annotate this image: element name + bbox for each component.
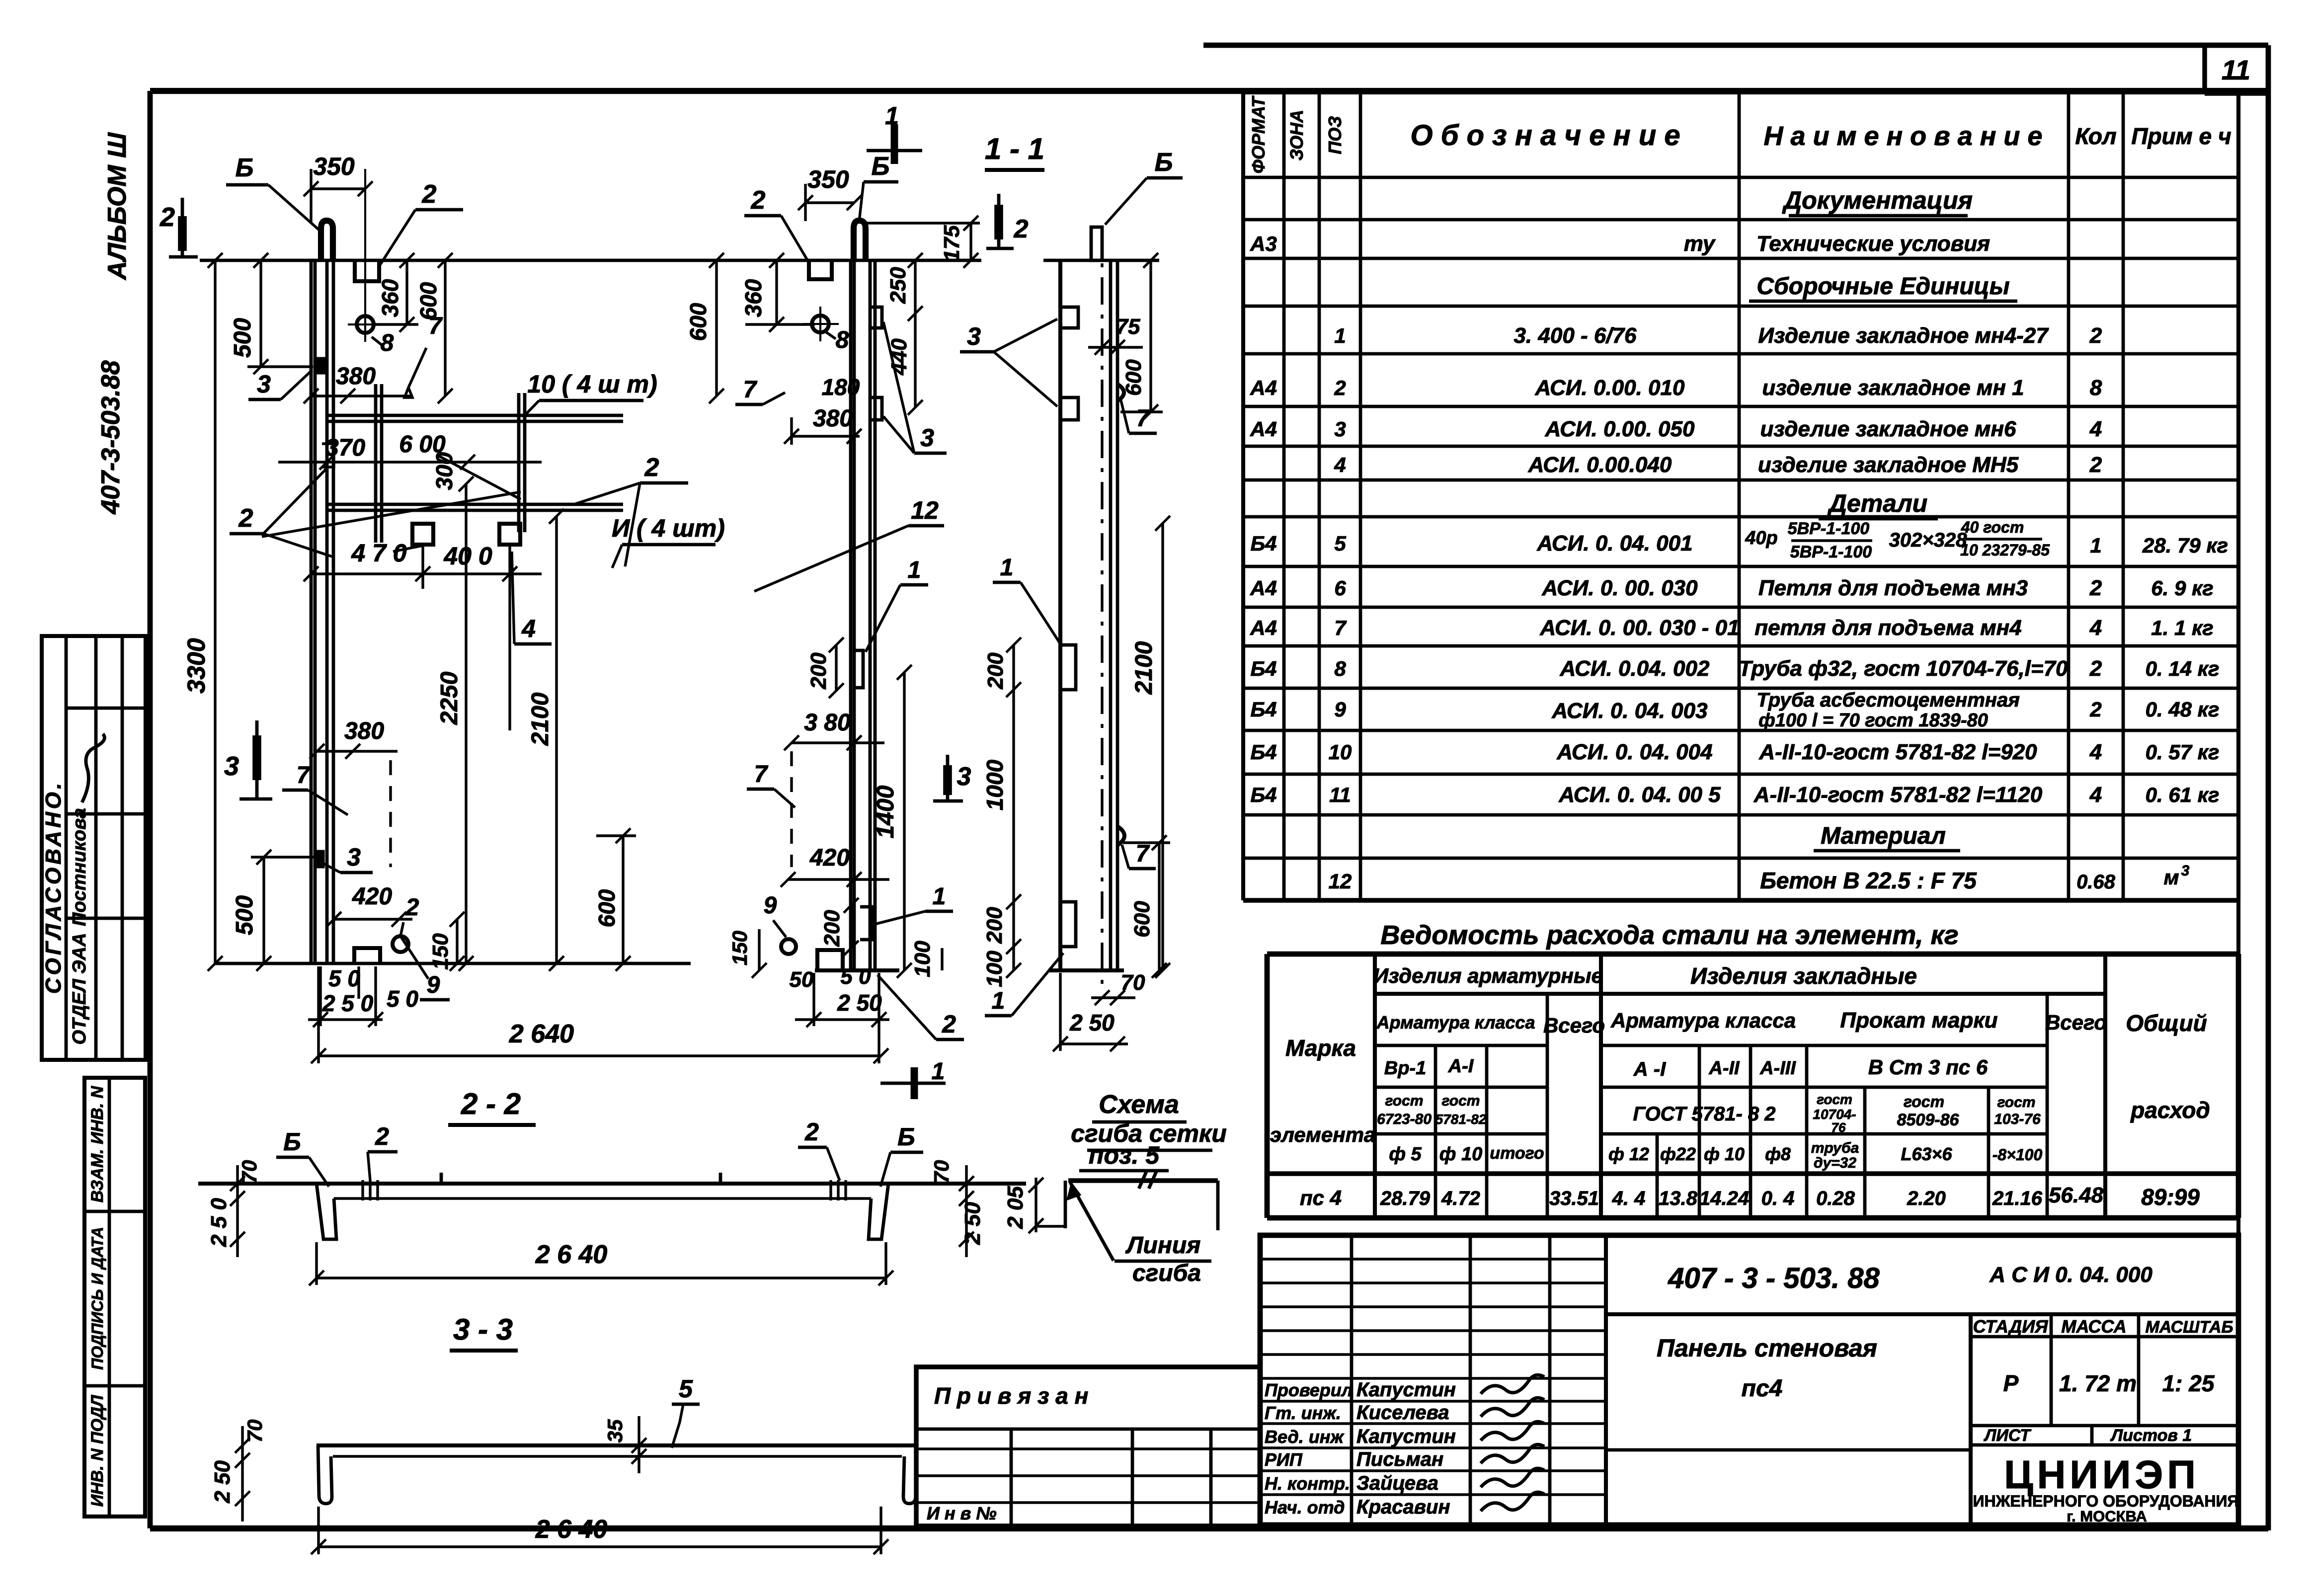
svg-text:380: 380 (344, 718, 384, 744)
svg-text:6: 6 (1334, 576, 1346, 600)
svg-text:56.48: 56.48 (2049, 1183, 2104, 1207)
svg-text:3. 400 - 6/76: 3. 400 - 6/76 (1514, 323, 1637, 348)
svg-text:2 50: 2 50 (837, 990, 882, 1016)
svg-text:Изделия арматурные: Изделия арматурные (1373, 964, 1603, 987)
svg-text:2: 2 (942, 1010, 956, 1038)
svg-text:7: 7 (743, 377, 758, 403)
svg-text:А-II-10-гост 5781-82 l=920: А-II-10-гост 5781-82 l=920 (1758, 740, 2037, 764)
svg-text:А3: А3 (1250, 232, 1277, 255)
svg-text:А-I: А-I (1448, 1056, 1474, 1077)
svg-text:АСИ. 0. 00. 030: АСИ. 0. 00. 030 (1541, 576, 1698, 600)
svg-text:6723-80: 6723-80 (1377, 1111, 1432, 1127)
svg-text:АСИ. 0. 00. 030 - 01: АСИ. 0. 00. 030 - 01 (1539, 616, 1739, 640)
svg-text:ГОСТ 5781- 8 2: ГОСТ 5781- 8 2 (1633, 1103, 1775, 1125)
svg-text:Арматура класса: Арматура класса (1376, 1012, 1535, 1033)
svg-text:петля для подъема мн4: петля для подъема мн4 (1754, 616, 2021, 640)
svg-text:ф8: ф8 (1765, 1144, 1791, 1164)
svg-text:2100: 2100 (527, 692, 554, 746)
svg-text:Технические условия: Технические условия (1756, 232, 1990, 256)
svg-text:Б: Б (283, 1128, 301, 1156)
svg-text:Всего: Всего (1543, 1014, 1605, 1037)
svg-text:50: 50 (790, 967, 814, 992)
svg-text:600: 600 (685, 303, 711, 341)
svg-text:АСИ. 0.00. 050: АСИ. 0.00. 050 (1545, 417, 1695, 441)
svg-text:200: 200 (806, 652, 831, 690)
svg-text:Б4: Б4 (1250, 657, 1276, 680)
svg-text:2 50: 2 50 (960, 1202, 985, 1245)
svg-text:2: 2 (2089, 576, 2102, 600)
svg-text:2: 2 (644, 453, 659, 482)
svg-text:Капустин: Капустин (1356, 1426, 1456, 1447)
svg-text:2.20: 2.20 (1907, 1188, 1946, 1209)
svg-text:1. 1 кг: 1. 1 кг (2151, 616, 2213, 639)
svg-text:3: 3 (920, 424, 934, 452)
svg-text:А-II: А-II (1708, 1058, 1740, 1079)
svg-text:4.72: 4.72 (1441, 1188, 1480, 1209)
svg-text:гост: гост (1442, 1093, 1480, 1109)
svg-text:А4: А4 (1250, 616, 1277, 639)
svg-text:Ведомость расхода стали: Ведомость расхода стали на элемент, кг (1380, 920, 1958, 950)
svg-text:11: 11 (1329, 783, 1351, 806)
svg-text:Б: Б (897, 1123, 915, 1151)
svg-text:Всего: Всего (2045, 1011, 2107, 1034)
svg-text:3 - 3: 3 - 3 (453, 1313, 513, 1346)
svg-text:9: 9 (1334, 698, 1346, 721)
svg-text:420: 420 (352, 883, 392, 910)
svg-text:А-III: А-III (1759, 1058, 1796, 1079)
svg-text:2 50: 2 50 (210, 1460, 235, 1504)
svg-text:2: 2 (375, 1122, 389, 1150)
svg-text:Красавин: Красавин (1356, 1496, 1450, 1518)
svg-text:-8×100: -8×100 (1993, 1146, 2043, 1164)
svg-text:L63×6: L63×6 (1901, 1144, 1952, 1164)
svg-text:АСИ. 0. 04. 003: АСИ. 0. 04. 003 (1551, 699, 1707, 723)
svg-text:8: 8 (836, 327, 849, 353)
svg-text:7: 7 (754, 761, 769, 788)
svg-text:А4: А4 (1250, 417, 1277, 441)
svg-text:Кол: Кол (2075, 123, 2116, 149)
svg-text:А-II-10-гост 5781-82 l=1120: А-II-10-гост 5781-82 l=1120 (1754, 783, 2043, 807)
svg-text:150: 150 (728, 931, 751, 965)
svg-text:5: 5 (679, 1375, 693, 1403)
svg-text:Бетон В 22.5 : F 75: Бетон В 22.5 : F 75 (1760, 868, 1977, 893)
svg-text:10 ( 4 ш т): 10 ( 4 ш т) (527, 370, 657, 398)
svg-text:Линия: Линия (1125, 1232, 1201, 1259)
svg-text:76: 76 (1832, 1120, 1846, 1135)
svg-text:175: 175 (940, 225, 964, 262)
svg-text:500: 500 (230, 318, 256, 358)
svg-text:Листов 1: Листов 1 (2110, 1426, 2192, 1445)
svg-text:28.79: 28.79 (1380, 1188, 1431, 1209)
svg-text:АСИ. 0. 04. 001: АСИ. 0. 04. 001 (1536, 531, 1692, 556)
svg-text:2: 2 (1014, 215, 1029, 243)
svg-text:0. 57 кг: 0. 57 кг (2146, 740, 2220, 764)
svg-text:Постникова: Постникова (69, 808, 90, 926)
svg-text:4: 4 (2089, 740, 2102, 764)
svg-text:А С И 0. 04. 000: А С И 0. 04. 000 (1989, 1263, 2153, 1287)
svg-text:МАСШТАБ: МАСШТАБ (2145, 1318, 2233, 1337)
svg-text:7: 7 (297, 762, 311, 789)
svg-text:7: 7 (429, 313, 443, 339)
svg-text:2 6 40: 2 6 40 (535, 1240, 608, 1269)
svg-text:10: 10 (1329, 740, 1352, 764)
svg-text:В Ст 3 пс 6: В Ст 3 пс 6 (1868, 1055, 1988, 1079)
svg-text:И ( 4 шт): И ( 4 шт) (612, 514, 725, 542)
svg-text:Зайцева: Зайцева (1356, 1472, 1438, 1494)
svg-text:2: 2 (2089, 656, 2102, 681)
svg-text:Н. контр.: Н. контр. (1265, 1473, 1350, 1494)
svg-text:2 6 40: 2 6 40 (535, 1515, 608, 1544)
svg-text:70: 70 (238, 1160, 261, 1184)
svg-text:ф22: ф22 (1660, 1144, 1696, 1164)
svg-text:0.28: 0.28 (1816, 1188, 1855, 1209)
svg-text:ф 5: ф 5 (1389, 1144, 1422, 1165)
svg-text:3300: 3300 (182, 638, 210, 693)
svg-text:12: 12 (911, 496, 939, 524)
svg-text:Проверил: Проверил (1265, 1380, 1353, 1400)
svg-text:Б4: Б4 (1250, 698, 1276, 721)
svg-text:ОТДЕЛ ЭАА: ОТДЕЛ ЭАА (69, 933, 90, 1045)
svg-text:Гт. инж.: Гт. инж. (1265, 1403, 1341, 1423)
svg-text:407-3-503.88: 407-3-503.88 (96, 360, 125, 514)
svg-text:100: 100 (910, 941, 935, 977)
svg-text:гост: гост (1385, 1093, 1424, 1109)
svg-text:ф 12: ф 12 (1608, 1144, 1649, 1164)
svg-text:360: 360 (740, 279, 766, 317)
svg-text:пс4: пс4 (1742, 1375, 1783, 1402)
svg-text:5 0: 5 0 (328, 965, 360, 991)
svg-text:Документация: Документация (1782, 186, 1973, 214)
svg-text:0. 48 кг: 0. 48 кг (2146, 698, 2220, 721)
svg-text:МАССА: МАССА (2061, 1316, 2126, 1337)
svg-text:Петля для подъема мн3: Петля для подъема мн3 (1758, 576, 2028, 600)
svg-text:75: 75 (1116, 315, 1140, 339)
svg-text:Изделие закладное мн4-27: Изделие закладное мн4-27 (1758, 323, 2049, 348)
svg-text:14.24: 14.24 (1699, 1188, 1749, 1209)
svg-text:103-76: 103-76 (1994, 1111, 2041, 1127)
svg-text:1: 1 (908, 557, 921, 583)
svg-text:8: 8 (1334, 657, 1346, 680)
svg-text:2 640: 2 640 (509, 1020, 574, 1048)
svg-text:2 05: 2 05 (1003, 1186, 1028, 1229)
svg-text:3 80: 3 80 (804, 710, 851, 736)
svg-text:пс 4: пс 4 (1300, 1186, 1342, 1209)
svg-text:Изделия закладные: Изделия закладные (1690, 963, 1917, 989)
svg-text:28. 79 кг: 28. 79 кг (2142, 534, 2228, 557)
svg-text:4: 4 (2089, 616, 2102, 640)
svg-text:180: 180 (822, 374, 860, 400)
svg-text:изделие закладное мн 1: изделие закладное мн 1 (1762, 376, 2024, 400)
svg-text:5ВР-1-100: 5ВР-1-100 (1788, 519, 1870, 538)
svg-text:33.51: 33.51 (1549, 1188, 1599, 1209)
svg-text:4: 4 (2089, 417, 2102, 441)
svg-text:3: 3 (347, 843, 361, 871)
svg-text:4. 4: 4. 4 (1612, 1188, 1646, 1209)
svg-text:2: 2 (2089, 698, 2101, 721)
svg-text:1: 1 (992, 988, 1005, 1014)
svg-text:2: 2 (239, 504, 253, 533)
svg-text:Труба асбестоцементная: Труба асбестоцементная (1756, 689, 2020, 711)
svg-text:407 - 3 - 503. 88: 407 - 3 - 503. 88 (1668, 1262, 1880, 1294)
svg-text:ту: ту (1684, 232, 1716, 256)
svg-text:2 5 0: 2 5 0 (207, 1198, 231, 1247)
svg-text:2100: 2100 (1131, 641, 1157, 695)
svg-text:8509-86: 8509-86 (1897, 1111, 1960, 1129)
svg-text:0. 14 кг: 0. 14 кг (2146, 657, 2220, 680)
svg-text:расход: расход (2130, 1097, 2210, 1123)
svg-text:200: 200 (820, 910, 844, 947)
svg-text:Б4: Б4 (1250, 740, 1276, 764)
svg-text:6. 9 кг: 6. 9 кг (2151, 576, 2213, 600)
svg-text:Вр-1: Вр-1 (1384, 1058, 1426, 1079)
svg-text:СОГЛАСОВАНО.: СОГЛАСОВАНО. (41, 780, 66, 994)
svg-text:АСИ. 0.04. 002: АСИ. 0.04. 002 (1560, 656, 1710, 681)
svg-text:2: 2 (159, 202, 175, 232)
svg-text:Панель стеновая: Панель стеновая (1657, 1334, 1877, 1362)
svg-text:2: 2 (422, 180, 437, 209)
svg-text:П р и в я з а н: П р и в я з а н (934, 1383, 1088, 1409)
svg-text:Письман: Письман (1356, 1448, 1443, 1470)
svg-text:Общий: Общий (2126, 1010, 2207, 1036)
svg-text:сгиба: сгиба (1132, 1260, 1201, 1286)
svg-text:500: 500 (232, 895, 258, 935)
svg-text:ФОРМАТ: ФОРМАТ (1248, 95, 1269, 173)
svg-text:12: 12 (1329, 870, 1352, 893)
svg-text:м: м (2163, 866, 2179, 889)
svg-text:2: 2 (804, 1118, 819, 1146)
svg-text:А4: А4 (1250, 376, 1277, 399)
svg-text:3: 3 (224, 751, 239, 781)
svg-text:АСИ. 0.00.040: АСИ. 0.00.040 (1528, 453, 1672, 477)
svg-text:Арматура класса: Арматура класса (1610, 1009, 1796, 1032)
svg-text:35: 35 (603, 1419, 627, 1442)
svg-text:7: 7 (1334, 616, 1347, 639)
svg-text:Б: Б (1155, 148, 1173, 177)
svg-text:элемента: элемента (1270, 1123, 1376, 1146)
svg-text:2: 2 (2089, 323, 2102, 348)
svg-text:труба: труба (1811, 1140, 1859, 1156)
svg-text:АЛЬБОМ Ш: АЛЬБОМ Ш (103, 132, 132, 281)
svg-text:ЗОНА: ЗОНА (1286, 110, 1307, 160)
svg-text:2: 2 (1334, 376, 1346, 399)
svg-text:поз. 5: поз. 5 (1089, 1141, 1160, 1169)
svg-text:ду=32: ду=32 (1814, 1155, 1856, 1171)
svg-text:600: 600 (594, 889, 620, 927)
svg-text:1: 1 (933, 883, 946, 910)
svg-text:Труба ф32, гост 10704-76,l=70: Труба ф32, гост 10704-76,l=70 (1739, 656, 2068, 681)
svg-text:5ВР-1-100: 5ВР-1-100 (1790, 543, 1872, 561)
svg-text:350: 350 (313, 153, 355, 180)
svg-text:изделие закладное МН5: изделие закладное МН5 (1758, 453, 2019, 477)
svg-text:40 гост: 40 гост (1961, 518, 2024, 536)
svg-text:3: 3 (257, 370, 271, 398)
svg-text:Марка: Марка (1285, 1035, 1356, 1061)
svg-text:3: 3 (957, 762, 971, 791)
svg-text:ПОДПИСЬ И ДАТА: ПОДПИСЬ И ДАТА (88, 1227, 106, 1370)
svg-text:5 0: 5 0 (840, 964, 871, 989)
svg-text:3: 3 (967, 322, 981, 350)
svg-text:200: 200 (983, 652, 1008, 690)
svg-text:1400: 1400 (873, 785, 899, 838)
svg-text:100: 100 (982, 951, 1007, 987)
svg-text:150: 150 (428, 933, 453, 970)
svg-text:10 23279-85: 10 23279-85 (1960, 541, 2050, 559)
svg-text:ф 10: ф 10 (1439, 1144, 1482, 1165)
svg-text:ЛИСТ: ЛИСТ (1983, 1426, 2032, 1445)
svg-text:4: 4 (1334, 453, 1346, 477)
svg-text:5 0: 5 0 (387, 986, 418, 1012)
svg-text:Н а и м е н о в а н и е: Н а и м е н о в а н и е (1764, 121, 2043, 151)
svg-text:ПОЗ: ПОЗ (1325, 116, 1345, 154)
svg-text:11: 11 (2222, 54, 2250, 85)
svg-text:0. 61 кг: 0. 61 кг (2146, 783, 2220, 806)
svg-text:А -I: А -I (1633, 1058, 1666, 1080)
svg-text:600: 600 (1130, 901, 1154, 938)
svg-text:Прокат марки: Прокат марки (1840, 1008, 1997, 1033)
svg-text:420: 420 (809, 845, 850, 871)
svg-text:5: 5 (1334, 532, 1346, 555)
svg-text:АСИ. 0. 04. 00 5: АСИ. 0. 04. 00 5 (1558, 783, 1721, 807)
svg-text:1: 1 (2090, 534, 2101, 557)
svg-text:21.16: 21.16 (1992, 1188, 2043, 1209)
svg-text:2250: 2250 (436, 671, 463, 725)
svg-text:2: 2 (2089, 453, 2102, 477)
svg-text:3: 3 (1334, 417, 1346, 441)
svg-text:89:99: 89:99 (2141, 1184, 2200, 1210)
svg-text:Б: Б (872, 152, 890, 181)
svg-text:3: 3 (2181, 863, 2190, 879)
svg-text:ИНВ. N ПОДЛ: ИНВ. N ПОДЛ (88, 1395, 107, 1507)
svg-text:1: 25: 1: 25 (2162, 1370, 2215, 1396)
svg-text:О б о з н а ч е н и е: О б о з н а ч е н и е (1410, 119, 1680, 152)
svg-text:8: 8 (381, 330, 394, 356)
svg-text:ЦНИИЭП: ЦНИИЭП (2004, 1452, 2200, 1497)
svg-text:Р: Р (2003, 1370, 2019, 1396)
svg-text:2: 2 (405, 894, 419, 921)
svg-text:Б: Б (236, 154, 254, 182)
svg-text:1: 1 (1000, 555, 1014, 581)
svg-text:Б4: Б4 (1250, 532, 1276, 555)
svg-text:АСИ. 0.00. 010: АСИ. 0.00. 010 (1535, 376, 1685, 400)
svg-text:1: 1 (932, 1058, 945, 1085)
svg-text:2 5 0: 2 5 0 (322, 990, 374, 1016)
svg-text:380: 380 (336, 363, 376, 390)
svg-text:гост: гост (1904, 1093, 1944, 1111)
svg-text:Детали: Детали (1827, 489, 1927, 517)
svg-text:ВЗАМ. ИНВ. N: ВЗАМ. ИНВ. N (88, 1085, 107, 1202)
svg-text:5781-82: 5781-82 (1435, 1112, 1487, 1127)
svg-text:2 - 2: 2 - 2 (461, 1087, 521, 1120)
svg-text:9: 9 (427, 972, 440, 998)
svg-text:1 - 1: 1 - 1 (985, 132, 1044, 165)
svg-text:Схема: Схема (1099, 1090, 1179, 1119)
svg-text:350: 350 (807, 165, 849, 193)
svg-text:4 7 0: 4 7 0 (351, 539, 406, 567)
svg-text:Сборочные Единицы: Сборочные Единицы (1756, 273, 2009, 300)
svg-text:итого: итого (1490, 1144, 1544, 1163)
svg-text:РИП: РИП (1265, 1449, 1303, 1470)
svg-text:70: 70 (930, 1160, 953, 1184)
svg-text:302×328: 302×328 (1889, 529, 1968, 551)
svg-text:0. 4: 0. 4 (1761, 1188, 1795, 1209)
svg-text:Капустин: Капустин (1356, 1379, 1456, 1401)
svg-text:Вед. инж: Вед. инж (1265, 1427, 1345, 1447)
svg-text:8: 8 (2090, 376, 2102, 400)
svg-text:Б4: Б4 (1250, 783, 1276, 806)
svg-text:И н в №: И н в № (927, 1503, 997, 1523)
svg-text:360: 360 (377, 279, 403, 317)
svg-text:380: 380 (813, 405, 853, 432)
svg-text:Материал: Материал (1821, 823, 1946, 849)
svg-text:40р: 40р (1745, 528, 1777, 549)
svg-text:ф100 l = 70 гост 1839-80: ф100 l = 70 гост 1839-80 (1758, 710, 1988, 731)
svg-text:2 50: 2 50 (1069, 1010, 1115, 1036)
svg-text:9: 9 (764, 892, 777, 919)
svg-text:2: 2 (751, 186, 766, 215)
svg-text:7: 7 (1136, 405, 1151, 432)
svg-text:4: 4 (521, 615, 536, 642)
svg-text:40 0: 40 0 (443, 542, 492, 570)
svg-text:4: 4 (2089, 783, 2102, 807)
svg-text:0.68: 0.68 (2076, 871, 2116, 893)
svg-text:1: 1 (885, 102, 899, 130)
svg-text:250: 250 (886, 267, 910, 304)
svg-text:АСИ. 0. 04. 004: АСИ. 0. 04. 004 (1556, 740, 1712, 764)
svg-text:13.8: 13.8 (1659, 1188, 1698, 1209)
svg-text:1. 72 т: 1. 72 т (2059, 1370, 2137, 1396)
svg-text:Киселева: Киселева (1356, 1402, 1449, 1424)
svg-text:1000: 1000 (982, 759, 1008, 810)
svg-text:СТАДИЯ: СТАДИЯ (1973, 1316, 2048, 1337)
svg-text:А4: А4 (1250, 576, 1277, 600)
svg-text:гост: гост (1997, 1094, 2036, 1111)
svg-text:изделие закладное мн6: изделие закладное мн6 (1760, 417, 2016, 441)
svg-text:ф 10: ф 10 (1704, 1144, 1745, 1164)
svg-text:200: 200 (982, 907, 1007, 944)
svg-text:Нач. отд: Нач. отд (1265, 1497, 1345, 1517)
svg-text:70: 70 (243, 1420, 266, 1443)
svg-text:Прим е ч: Прим е ч (2131, 123, 2231, 149)
svg-text:1: 1 (1334, 324, 1346, 347)
svg-text:г. МОСКВА: г. МОСКВА (2067, 1508, 2147, 1525)
svg-text:гост: гост (1817, 1092, 1852, 1107)
svg-text:7: 7 (1136, 841, 1150, 867)
